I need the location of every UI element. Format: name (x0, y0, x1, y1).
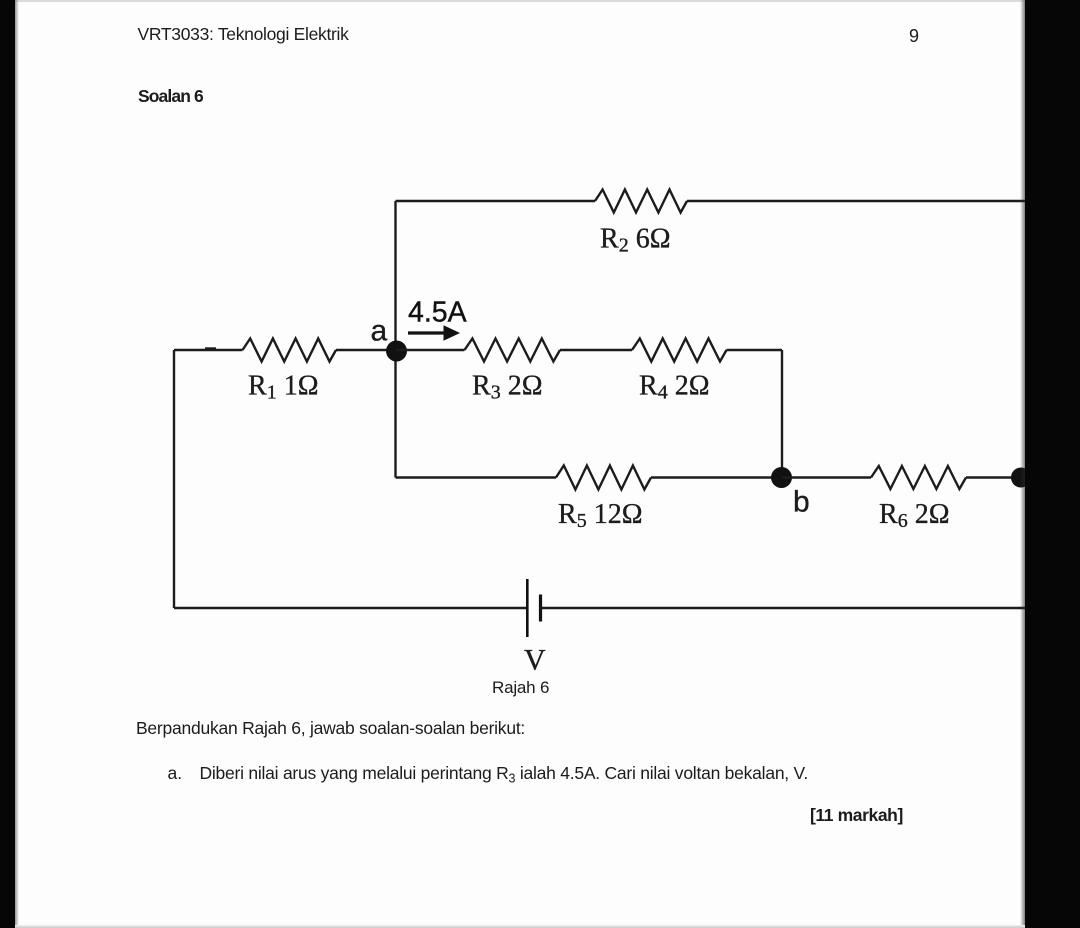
current arrow 4.5A label (408, 297, 467, 329)
label R3 2ohm (472, 371, 543, 404)
top photo edge shade (15, 0, 1025, 2)
battery V long plate (526, 579, 529, 637)
caption Rajah 6 (492, 679, 549, 696)
wire: R6 to right edge node (966, 476, 1030, 478)
wire: left vertical branch (173, 350, 175, 608)
svg-text:b: b (793, 486, 810, 519)
bottom photo edge shade (15, 925, 1025, 928)
battery V short plate (539, 595, 542, 622)
resistor R3 (465, 339, 561, 362)
resistor R4 (632, 339, 727, 362)
label R1 1ohm (248, 371, 319, 404)
label R2 6ohm (600, 224, 671, 257)
wire: node b to resistor R6 (782, 476, 871, 478)
wire: vertical from top branch through node a down to bottom-middle branch (394, 201, 396, 478)
right black bar (photo edge) (1025, 0, 1080, 928)
wire: node a to resistor R3 (396, 349, 465, 351)
svg-text:R3 2Ω: R3 2Ω (472, 371, 543, 404)
svg-text:4.5A: 4.5A (408, 297, 467, 329)
wire: bottom branch right of battery (541, 607, 1063, 609)
wire: R1 to node a (336, 349, 396, 351)
wire: right vertical down to node b (781, 350, 783, 478)
left bar soft edge (15, 0, 19, 928)
wire: top branch right segment (R2 to right edge) (687, 200, 1062, 202)
svg-text:R5 12Ω: R5 12Ω (558, 499, 643, 532)
svg-text:V: V (524, 644, 546, 677)
node a junction dot (386, 341, 407, 362)
right edge junction dot (1011, 468, 1031, 488)
node a label (371, 315, 388, 348)
svg-text:R1 1Ω: R1 1Ω (248, 371, 319, 404)
right bar soft edge (1020, 0, 1025, 928)
label R6 2ohm (879, 499, 950, 532)
resistor R2 (595, 190, 687, 213)
label R5 12ohm (558, 499, 643, 532)
left black bar (photo edge) (0, 0, 15, 928)
resistor R5 (556, 466, 651, 490)
wire: bottom-middle branch from below node a to resistor R5 (396, 476, 557, 478)
battery label V (524, 644, 546, 677)
svg-text:R2 6Ω: R2 6Ω (600, 224, 671, 257)
page number 9 (909, 27, 919, 45)
paragraph instruction (136, 720, 525, 738)
resistor R1 (243, 339, 337, 362)
wire: R4 to right corner (727, 349, 783, 351)
wire: bottom branch left of battery (174, 607, 527, 609)
svg-text:R4 2Ω: R4 2Ω (639, 371, 710, 404)
svg-text:R6 2Ω: R6 2Ω (879, 499, 950, 532)
heading Soalan 6 (138, 88, 203, 106)
marks label (810, 807, 903, 825)
item a. question text (168, 765, 183, 783)
label R4 2ohm (639, 371, 710, 404)
node b label (793, 486, 810, 519)
wire: left branch from left vertical to resistor R1 (174, 349, 243, 351)
wire: R5 to node b (651, 476, 782, 478)
resistor R6 (871, 466, 966, 489)
wire: top branch left segment (node a vertical to R2) (396, 200, 596, 202)
current arrow (408, 325, 460, 340)
wire joint artifact near x=210 (205, 347, 216, 349)
svg-text:a: a (371, 315, 388, 348)
wire: R3 to R4 (560, 349, 632, 351)
node b junction dot (771, 467, 792, 488)
header course title (138, 26, 349, 44)
